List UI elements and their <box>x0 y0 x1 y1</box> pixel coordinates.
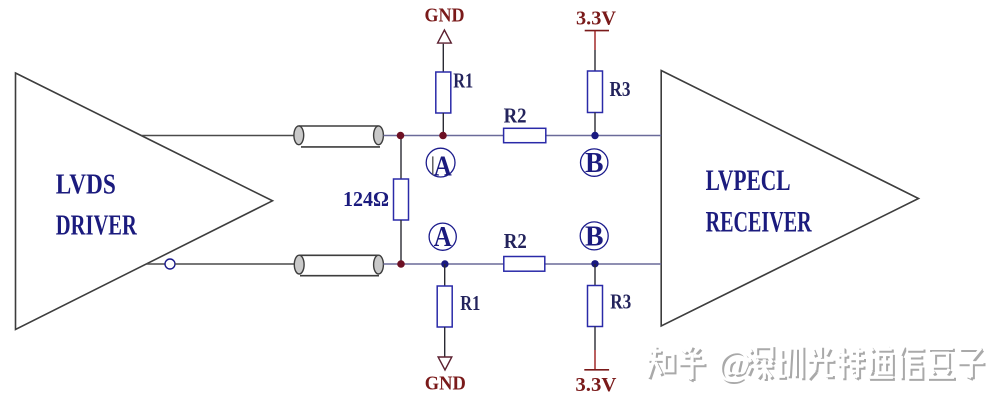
svg-text:GND: GND <box>425 373 466 395</box>
resistor R3 (bottom) <box>588 286 603 327</box>
wire driver top output to transmission line <box>142 135 295 137</box>
wire node B bottom to R3 bottom <box>594 264 596 286</box>
op-amp U1 LVDS driver triangle <box>16 73 273 330</box>
node B bottom circle <box>580 221 608 252</box>
svg-text:@: @ <box>717 343 751 383</box>
op-amp U2 LVPECL receiver triangle <box>661 71 918 327</box>
svg-text:RECEIVER: RECEIVER <box>706 206 812 239</box>
wire R1 top to node A <box>442 113 444 136</box>
junction dot top of 124ohm (maroon) <box>397 132 405 140</box>
svg-text:LVDS: LVDS <box>56 169 116 201</box>
svg-text:R2: R2 <box>504 229 527 253</box>
wire 3.3V to R3 top <box>594 50 596 71</box>
wire bubble to bottom transmission line <box>175 263 294 265</box>
node A bottom circle <box>429 222 456 253</box>
wire R3 bottom to 3.3V <box>594 327 596 351</box>
junction dot node B top (navy) <box>591 132 598 139</box>
wire bottom net: cylinder to receiver <box>383 263 503 265</box>
svg-text:124Ω: 124Ω <box>343 187 389 211</box>
wire driver bottom output to bubble <box>146 263 165 265</box>
svg-text:B: B <box>585 221 604 252</box>
wire node A bottom to R1 bottom <box>444 264 446 286</box>
junction dot node A top (maroon) <box>439 132 447 140</box>
3.3V symbol top <box>576 7 617 50</box>
transmission line TL1 (top coax cylinder) <box>294 126 384 147</box>
node B top circle <box>581 148 608 179</box>
resistor R1 (top) <box>436 72 451 113</box>
junction dot node A bottom (navy) <box>441 260 448 267</box>
watermark zhihu text <box>648 343 986 385</box>
svg-text:3.3V: 3.3V <box>575 374 617 396</box>
inversion bubble on driver bottom output <box>165 259 175 269</box>
svg-text:R3: R3 <box>610 290 631 314</box>
wire 124ohm top stub <box>400 136 402 180</box>
wire GND to R1 top <box>442 44 444 72</box>
svg-text:B: B <box>585 148 604 179</box>
transmission line TL2 (bottom coax cylinder) <box>294 255 383 276</box>
resistor R3 (top) <box>588 71 603 113</box>
resistor R2 (bottom) <box>504 257 545 272</box>
junction dot bottom of 124ohm (maroon) <box>397 260 405 268</box>
svg-text:3.3V: 3.3V <box>576 7 617 29</box>
junction dot node B bottom (navy) <box>591 260 598 267</box>
svg-text:DRIVER: DRIVER <box>56 210 138 242</box>
wire R3 to node B top <box>594 113 596 136</box>
svg-text:R3: R3 <box>610 77 631 101</box>
wire top net: cylinder to receiver <box>383 135 503 137</box>
svg-text:R1: R1 <box>453 69 473 93</box>
svg-text:A: A <box>434 222 453 253</box>
svg-text:R1: R1 <box>460 291 480 315</box>
resistor 124 ohm <box>394 179 409 220</box>
wire 124ohm bottom stub <box>400 220 402 264</box>
3.3V symbol bottom <box>575 350 617 396</box>
svg-text:GND: GND <box>425 5 465 27</box>
svg-text:LVPECL: LVPECL <box>706 164 791 197</box>
resistor R2 (top) <box>504 128 546 142</box>
svg-text:A: A <box>434 151 453 182</box>
wire R1 bottom to GND <box>444 327 446 357</box>
svg-text:R2: R2 <box>504 103 527 127</box>
wire bottom net right of R2 <box>545 263 662 265</box>
GND symbol top <box>425 5 465 44</box>
wire top net right of R2 <box>546 135 661 137</box>
resistor R1 (bottom) <box>437 286 452 327</box>
GND symbol bottom <box>425 357 466 395</box>
node A top circle <box>426 148 455 182</box>
